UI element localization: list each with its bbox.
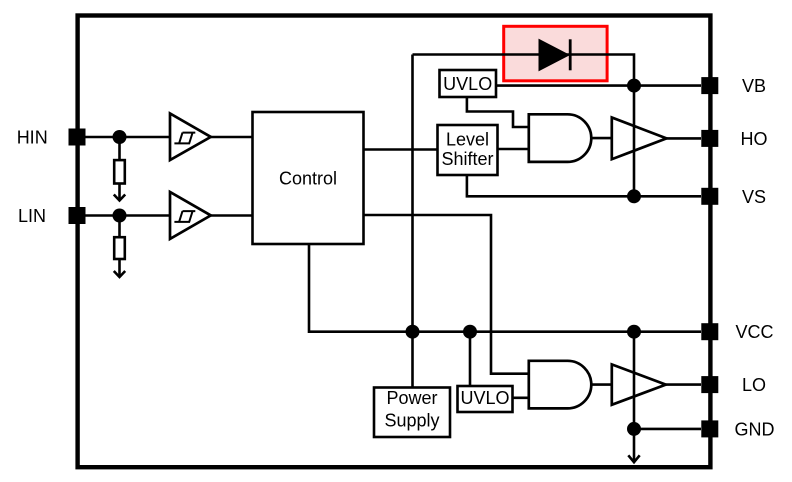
AND gate (low side) bbox=[529, 361, 592, 409]
svg-text:Supply: Supply bbox=[384, 410, 439, 430]
wire VCC riser to bootstrap diode and power supply bbox=[411, 55, 414, 388]
pin HO bbox=[701, 129, 767, 149]
svg-text:UVLO: UVLO bbox=[443, 74, 492, 94]
wire UVLO output to high-side AND gate bbox=[467, 97, 529, 127]
schmitt trigger input buffer (HIN) bbox=[170, 114, 211, 161]
rail VB to VS through high-side driver bbox=[633, 86, 636, 197]
wire UVLO to VB rail bbox=[496, 84, 701, 87]
wire LIN buffer output to Control bbox=[211, 214, 253, 217]
bootstrap diode wire VCC to VB bbox=[413, 55, 635, 86]
wire AND to low-side driver bbox=[591, 383, 612, 386]
Level Shifter block bbox=[438, 125, 498, 175]
svg-text:Level: Level bbox=[446, 130, 489, 150]
UVLO block (high side) bbox=[440, 70, 497, 97]
junction dot on HIN net bbox=[113, 130, 127, 144]
junction dot on LIN net bbox=[113, 209, 127, 223]
wire driver output to LO pin bbox=[666, 383, 701, 386]
output driver buffer (low side, LO) bbox=[612, 364, 666, 404]
wire Control low-side signal to lower AND gate bbox=[364, 215, 529, 374]
svg-text:Control: Control bbox=[279, 169, 337, 189]
ground arrow below GND junction bbox=[628, 429, 639, 462]
junction dot VCC / output driver rail bbox=[627, 325, 641, 339]
AND gate (high side) bbox=[529, 114, 591, 162]
pin VS bbox=[701, 187, 766, 207]
svg-text:GND: GND bbox=[735, 419, 775, 439]
junction dot VS / driver rail bbox=[627, 189, 641, 203]
svg-text:VS: VS bbox=[742, 187, 766, 207]
wire HIN junction down to pull-down resistor bbox=[118, 137, 121, 161]
pin HIN bbox=[17, 128, 86, 148]
pin VCC bbox=[701, 322, 773, 342]
junction dot GND / driver rail bbox=[627, 422, 641, 436]
svg-text:LIN: LIN bbox=[18, 206, 46, 226]
highlight box around bootstrap diode bbox=[504, 26, 607, 81]
wire GND junction to GND pin bbox=[634, 428, 701, 431]
pull-down resistor on HIN bbox=[114, 160, 125, 183]
wire LIN pin to schmitt buffer input bbox=[77, 214, 170, 217]
wire Level Shifter to VS rail bbox=[467, 175, 701, 196]
schmitt trigger input buffer (LIN) bbox=[170, 192, 211, 239]
wire VCC to lower UVLO bbox=[469, 332, 472, 386]
wire resistor to ground arrow (HIN) bbox=[118, 185, 121, 201]
wire LIN junction down to pull-down resistor bbox=[118, 216, 121, 238]
junction dot VB / bootstrap cathode bbox=[627, 79, 641, 93]
wire Control to Level Shifter bbox=[364, 148, 438, 151]
pin LO bbox=[701, 375, 766, 395]
wire AND to high-side driver bbox=[591, 137, 612, 140]
wire driver output to HO pin bbox=[667, 137, 702, 140]
svg-text:LO: LO bbox=[742, 375, 766, 395]
junction dot VCC / diode riser bbox=[406, 325, 420, 339]
pin GND bbox=[701, 419, 774, 439]
wire low-side UVLO to AND gate bbox=[513, 396, 529, 399]
svg-text:Shifter: Shifter bbox=[441, 149, 493, 169]
Power Supply block bbox=[374, 388, 450, 438]
pin VB bbox=[701, 76, 766, 96]
wire HIN pin to schmitt buffer input bbox=[77, 136, 170, 139]
svg-text:VB: VB bbox=[742, 76, 766, 96]
Control block bbox=[253, 112, 364, 244]
ground arrow below LIN resistor bbox=[114, 271, 125, 277]
svg-text:HO: HO bbox=[741, 129, 768, 149]
UVLO block (low side) bbox=[458, 386, 513, 412]
wire Level Shifter to high-side AND gate bbox=[498, 148, 529, 151]
wire Control bottom to VCC rail bbox=[309, 244, 701, 332]
svg-text:Power: Power bbox=[386, 388, 437, 408]
svg-text:HIN: HIN bbox=[17, 128, 48, 148]
svg-text:VCC: VCC bbox=[735, 322, 773, 342]
wire HIN buffer output to Control bbox=[211, 136, 253, 139]
junction dot VCC / lower UVLO feed bbox=[463, 325, 477, 339]
pin LIN bbox=[18, 206, 86, 226]
rail VCC to GND through low-side driver bbox=[633, 332, 636, 429]
wire resistor to ground arrow (LIN) bbox=[118, 260, 121, 277]
pull-down resistor on LIN bbox=[114, 237, 125, 259]
IC package boundary box bbox=[78, 16, 711, 468]
ground arrow below HIN resistor bbox=[114, 195, 125, 201]
svg-text:UVLO: UVLO bbox=[460, 388, 509, 408]
bootstrap diode bbox=[539, 39, 570, 70]
output driver buffer (high side, HO) bbox=[612, 118, 667, 160]
